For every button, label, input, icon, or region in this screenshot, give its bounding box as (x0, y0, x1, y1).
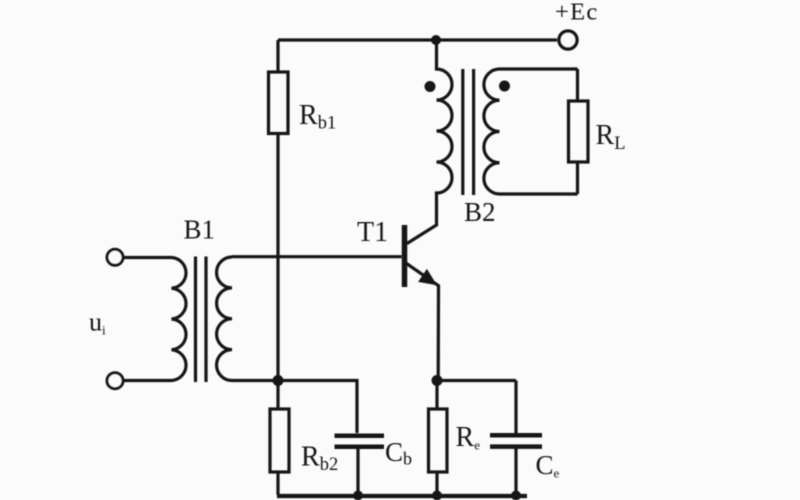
svg-text:B1: B1 (184, 214, 216, 244)
svg-text:B2: B2 (464, 197, 496, 227)
svg-text:+Ec: +Ec (555, 0, 599, 26)
svg-text:T1: T1 (357, 217, 388, 248)
